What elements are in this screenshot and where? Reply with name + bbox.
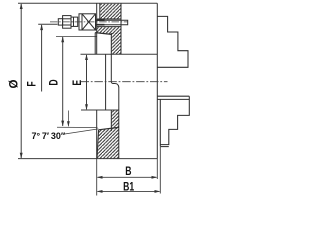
screw hole upper line <box>97 18 121 20</box>
angle reference vertical <box>67 111 69 127</box>
pinion shank lines to socket end <box>105 20 128 25</box>
hatching top flange ring <box>100 4 120 19</box>
arrowheads for vertical dimensions <box>20 3 88 158</box>
bottom jaw <box>157 96 189 146</box>
screw washer/neck <box>71 17 78 26</box>
svg-text:Ø: Ø <box>8 79 20 88</box>
wire top extension + body top edge <box>18 2 157 4</box>
screw thread bands in hole <box>96 19 105 21</box>
screw hole lower line <box>97 26 121 28</box>
dimension D line <box>62 37 64 126</box>
lower recess inner wall <box>110 110 112 131</box>
svg-text:F: F <box>26 81 39 86</box>
inner bore line <box>105 54 107 110</box>
arrow O top <box>20 3 23 9</box>
taper boss left face <box>94 33 96 55</box>
wire D top extension <box>56 36 97 38</box>
arrow E bottom <box>85 104 88 110</box>
screw hex head <box>63 16 71 29</box>
screw tip square <box>58 19 62 25</box>
recess inner wall with S-jog to lower wall <box>111 33 119 87</box>
chuck body <box>95 3 157 158</box>
svg-text:D: D <box>48 79 61 86</box>
wire B left extension <box>96 159 98 196</box>
main centerline <box>81 81 168 83</box>
wire bottom extension + body bottom edge <box>18 158 157 160</box>
arrow F top <box>40 24 43 30</box>
arrow D bottom <box>61 121 64 127</box>
hatching bottom flange block <box>97 127 119 158</box>
dimension B line <box>98 176 157 178</box>
lathe chuck technical drawing <box>0 0 200 200</box>
square drive box with X <box>79 14 96 30</box>
lower recess wall <box>118 87 120 159</box>
flange front face line <box>120 3 122 54</box>
hatching top column <box>111 33 121 54</box>
arrow B left <box>97 176 103 179</box>
counterbore wall <box>99 3 101 19</box>
arrow E top <box>85 54 88 60</box>
arrow B1 right <box>155 190 161 193</box>
dimension F line <box>41 25 43 92</box>
screw assembly at top <box>58 14 95 30</box>
svg-text:E: E <box>72 80 85 86</box>
svg-text:B1: B1 <box>123 181 134 194</box>
arrow B right <box>152 176 158 179</box>
hatching bottom column <box>111 110 119 129</box>
wire B right extension <box>156 159 158 179</box>
angle callout <box>57 111 98 135</box>
flange back face lower <box>96 110 98 159</box>
svg-text:7° 7′ 30′′: 7° 7′ 30′′ <box>32 131 66 141</box>
wire B1 right extension <box>159 147 161 194</box>
wire E top extension + recess shoulder line <box>81 53 158 55</box>
flange ring bottom face (taper) <box>95 33 111 35</box>
centerline of screw <box>50 21 128 23</box>
angle horizontal leg <box>57 126 98 128</box>
flange back face upper <box>96 3 98 54</box>
dimension O-diameter line <box>20 4 22 158</box>
dimension E line <box>86 55 88 109</box>
top jaw steps <box>157 16 188 67</box>
wire F extension <box>38 23 57 25</box>
arrow O bottom <box>20 153 23 159</box>
wire E bottom extension + lower shoulder line <box>81 109 119 111</box>
body front face <box>156 3 158 158</box>
dimension B1 line <box>98 190 160 192</box>
dimension B <box>97 147 161 196</box>
arrow D top <box>61 36 64 42</box>
arrow angle vertex <box>67 121 70 127</box>
svg-text:B: B <box>125 166 132 179</box>
arrow B1 left <box>97 190 103 193</box>
lower flange block top edge <box>99 127 119 130</box>
taper line extended <box>63 129 98 134</box>
lower flange block left edge <box>97 130 99 159</box>
